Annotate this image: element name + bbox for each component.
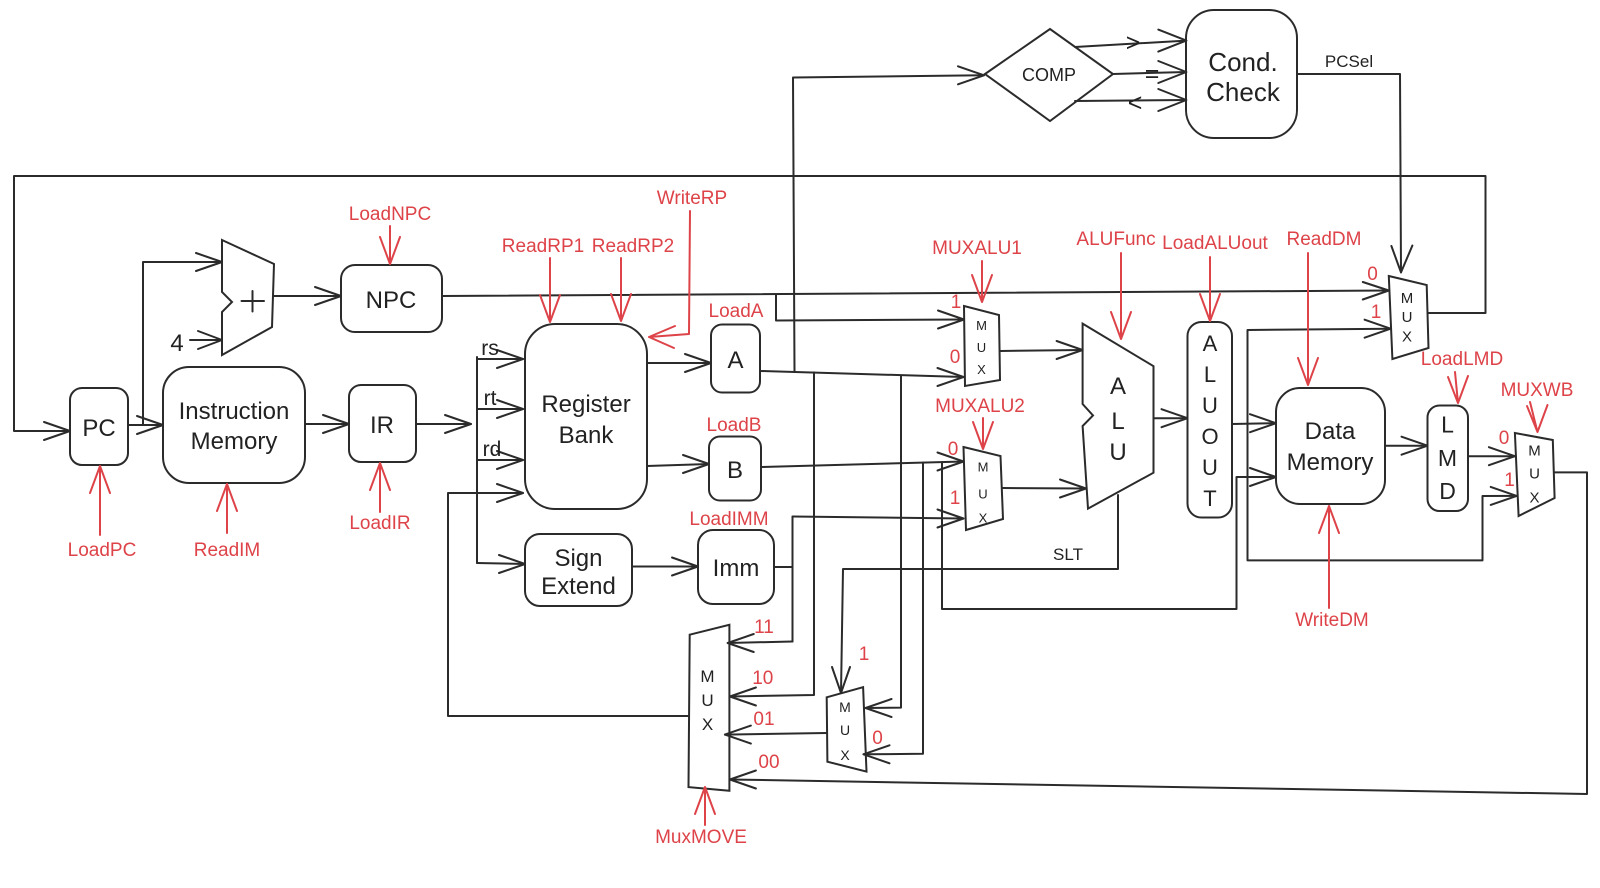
wire A output to MUXALU1 input 0 [760,368,964,386]
svg-text:B: B [727,457,743,484]
svg-text:M: M [978,460,989,475]
svg-text:1: 1 [950,488,961,509]
svg-text:Memory: Memory [191,428,278,455]
register LMD [1428,406,1469,512]
wire COMP greater output to cond check [1075,30,1186,52]
wire B branch down to small mux input 0 [864,463,924,764]
mux MuxMOVE (4-input) [689,625,730,791]
wire Imm output riser [774,517,793,642]
wire B branch to data memory write data [942,462,1276,609]
svg-text:L: L [1441,412,1454,438]
svg-text:ReadDM: ReadDM [1287,229,1362,250]
wire cond check PCSel to PC-mux select [1297,74,1412,272]
mux small (B/SLT select) [827,687,867,771]
instruction memory [163,367,305,483]
register PC [70,388,128,465]
svg-text:0: 0 [872,728,883,749]
wire rt field to register bank [477,400,523,418]
control LoadNPC [349,204,431,264]
svg-text:U: U [840,722,850,738]
svg-text:LoadLMD: LoadLMD [1421,349,1503,370]
control WriteDM [1295,506,1369,631]
svg-text:1: 1 [951,292,962,313]
register bank [525,324,647,509]
svg-text:01: 01 [753,709,774,730]
mux MUXALU2 [964,447,1004,530]
control MuxMOVE [655,787,747,848]
svg-text:IR: IR [370,412,394,439]
svg-text:LoadNPC: LoadNPC [349,204,431,225]
mux MUXALU1 [964,306,1000,386]
register A [711,325,760,393]
svg-text:<: < [1128,89,1143,117]
svg-text:ReadRP2: ReadRP2 [592,236,674,257]
svg-text:U: U [1202,393,1218,418]
svg-text:LoadIR: LoadIR [349,513,410,534]
wire NPC output to PC-mux input 0 [442,282,1389,300]
wire NPC branch to MUXALU1 input 1 [776,295,964,329]
svg-text:X: X [977,362,986,377]
svg-text:0: 0 [950,347,961,368]
control ReadIM [194,484,261,561]
svg-text:Memory: Memory [1287,449,1374,476]
wire imm field to sign extend [477,555,525,573]
svg-text:rd: rd [483,438,502,461]
svg-text:PCSel: PCSel [1325,52,1373,71]
svg-text:=: = [1145,60,1160,88]
register Imm [698,530,774,604]
svg-text:X: X [1529,490,1539,507]
control MUXWB [1501,380,1574,432]
svg-text:O: O [1201,424,1218,449]
svg-text:LoadALUout: LoadALUout [1162,233,1268,254]
svg-text:1: 1 [859,644,870,665]
svg-text:>: > [1126,29,1141,57]
svg-text:11: 11 [754,617,774,638]
wire PC to instruction memory [128,416,163,434]
control MUXALU1 [932,238,1022,302]
mux PC select [1389,276,1429,359]
svg-text:NPC: NPC [366,287,417,314]
wire sign extend to Imm [632,558,698,576]
svg-text:WriteDM: WriteDM [1295,610,1369,631]
svg-text:X: X [702,715,713,734]
wire register bank read1 to A [647,354,711,372]
svg-text:A: A [1203,331,1218,356]
wire instruction memory to IR [305,415,349,433]
wire ALUOUT branch up to PC-mux input 1 [1248,320,1391,424]
control LoadLMD [1421,349,1503,403]
wire data memory to LMD [1385,437,1428,455]
svg-text:MUXALU2: MUXALU2 [935,396,1025,417]
node constant 4 [170,330,222,357]
wire MUXWB output bottom loop to MuxMOVE input 00 [730,472,1587,794]
svg-text:00: 00 [758,752,779,773]
svg-text:L: L [1111,408,1124,435]
svg-text:U: U [1202,455,1218,480]
svg-text:SLT: SLT [1053,545,1083,564]
svg-text:Extend: Extend [541,573,616,600]
ALU [1083,324,1154,509]
svg-text:WriteRP: WriteRP [657,188,727,209]
comparator COMP [985,29,1113,121]
svg-text:Check: Check [1206,77,1281,107]
wire COMP less output to cond check [1075,89,1186,111]
svg-text:Bank: Bank [559,422,615,449]
svg-text:A: A [727,347,743,374]
svg-text:ReadIM: ReadIM [194,540,261,561]
data memory [1276,388,1385,504]
svg-text:1: 1 [1371,302,1382,323]
svg-text:A: A [1110,373,1126,400]
svg-text:T: T [1203,486,1216,511]
svg-text:1: 1 [1504,470,1515,491]
wire adder to NPC [274,287,341,305]
wire rs field to register bank [477,350,523,368]
svg-text:rs: rs [481,337,499,360]
svg-text:rt: rt [484,387,497,410]
wire ALU to ALUOUT [1154,409,1188,427]
svg-text:0: 0 [1499,428,1510,449]
wire IR to instruction field bus [416,357,477,563]
svg-text:4: 4 [170,330,183,357]
svg-text:0: 0 [1367,264,1378,285]
wire rd field to register bank [477,451,523,469]
wire ALUOUT branch down to MUXWB input 1 [1248,424,1517,561]
svg-text:U: U [1529,466,1540,483]
control WriteRP [649,188,727,348]
svg-text:Imm: Imm [713,555,760,582]
wire Imm to MUXALU2 input 1 [793,510,964,528]
svg-text:Cond.: Cond. [1208,47,1277,77]
sign extend unit [525,534,632,606]
wire register bank read2 to B [647,455,709,473]
svg-text:M: M [976,318,987,333]
control LoadALUout [1162,233,1268,321]
wire A branch down to small mux upper input [866,376,902,718]
svg-text:LoadB: LoadB [707,415,762,436]
svg-text:Data: Data [1305,418,1356,445]
svg-text:Instruction: Instruction [179,398,290,425]
svg-text:L: L [1204,362,1216,387]
svg-text:ReadRP1: ReadRP1 [502,236,584,257]
svg-text:D: D [1439,478,1456,504]
wire A branch up to COMP [793,66,984,372]
wire B output to MUXALU2 input 0 [761,453,964,471]
wire MUXALU1 to ALU [1000,341,1083,359]
wire SLT from ALU to small mux input 1 [832,495,1118,693]
wire A branch down to MuxMOVE input 10 [730,372,814,705]
wire ALUOUT to data memory address [1232,414,1276,432]
svg-text:LoadA: LoadA [709,301,764,322]
svg-text:X: X [1402,329,1412,346]
register B [709,437,761,501]
wire PC feedback loop from PC-mux output [14,176,1486,440]
register ALUOUT [1188,322,1233,518]
svg-text:U: U [978,487,987,502]
svg-text:U: U [977,340,986,355]
wire LMD to MUXWB input 0 [1468,447,1515,465]
svg-text:M: M [1528,443,1541,460]
control LoadPC [68,466,137,561]
wire small mux output to MuxMOVE input 01 [725,726,827,744]
svg-text:U: U [1109,439,1126,466]
svg-text:M: M [839,699,851,715]
wire Imm to MuxMOVE input 11 [728,634,793,652]
svg-text:MuxMOVE: MuxMOVE [655,827,747,848]
control ReadRP1 [502,236,584,322]
wire COMP equal output to cond check [1113,61,1186,83]
control ReadRP2 [592,236,674,321]
svg-text:LoadIMM: LoadIMM [689,509,768,530]
control MUXALU2 [935,396,1025,449]
wire MuxMOVE output to register bank write port [448,484,689,716]
svg-text:U: U [701,691,713,710]
wire MUXALU2 to ALU [1003,480,1086,498]
control LoadIR [349,463,410,534]
svg-text:Register: Register [541,391,630,418]
svg-text:X: X [979,511,988,526]
svg-text:U: U [1402,309,1413,326]
svg-text:X: X [840,747,850,763]
register IR [349,385,416,462]
svg-text:Sign: Sign [554,545,602,572]
adder [222,240,274,355]
svg-text:M: M [1438,445,1457,471]
svg-text:MUXALU1: MUXALU1 [932,238,1022,259]
svg-text:0: 0 [948,439,959,460]
svg-text:MUXWB: MUXWB [1501,380,1574,401]
svg-text:M: M [700,667,714,686]
cond check unit [1186,10,1297,138]
mux MUXWB [1515,433,1555,516]
control ALUFunc [1076,229,1155,339]
svg-text:ALUFunc: ALUFunc [1076,229,1155,250]
svg-text:PC: PC [82,415,115,442]
svg-text:COMP: COMP [1022,65,1076,85]
control ReadDM [1287,229,1362,385]
svg-text:10: 10 [752,668,773,689]
svg-text:LoadPC: LoadPC [68,540,137,561]
svg-text:M: M [1401,290,1414,307]
wire PC branch to adder top input [143,253,222,425]
register NPC [341,265,442,332]
